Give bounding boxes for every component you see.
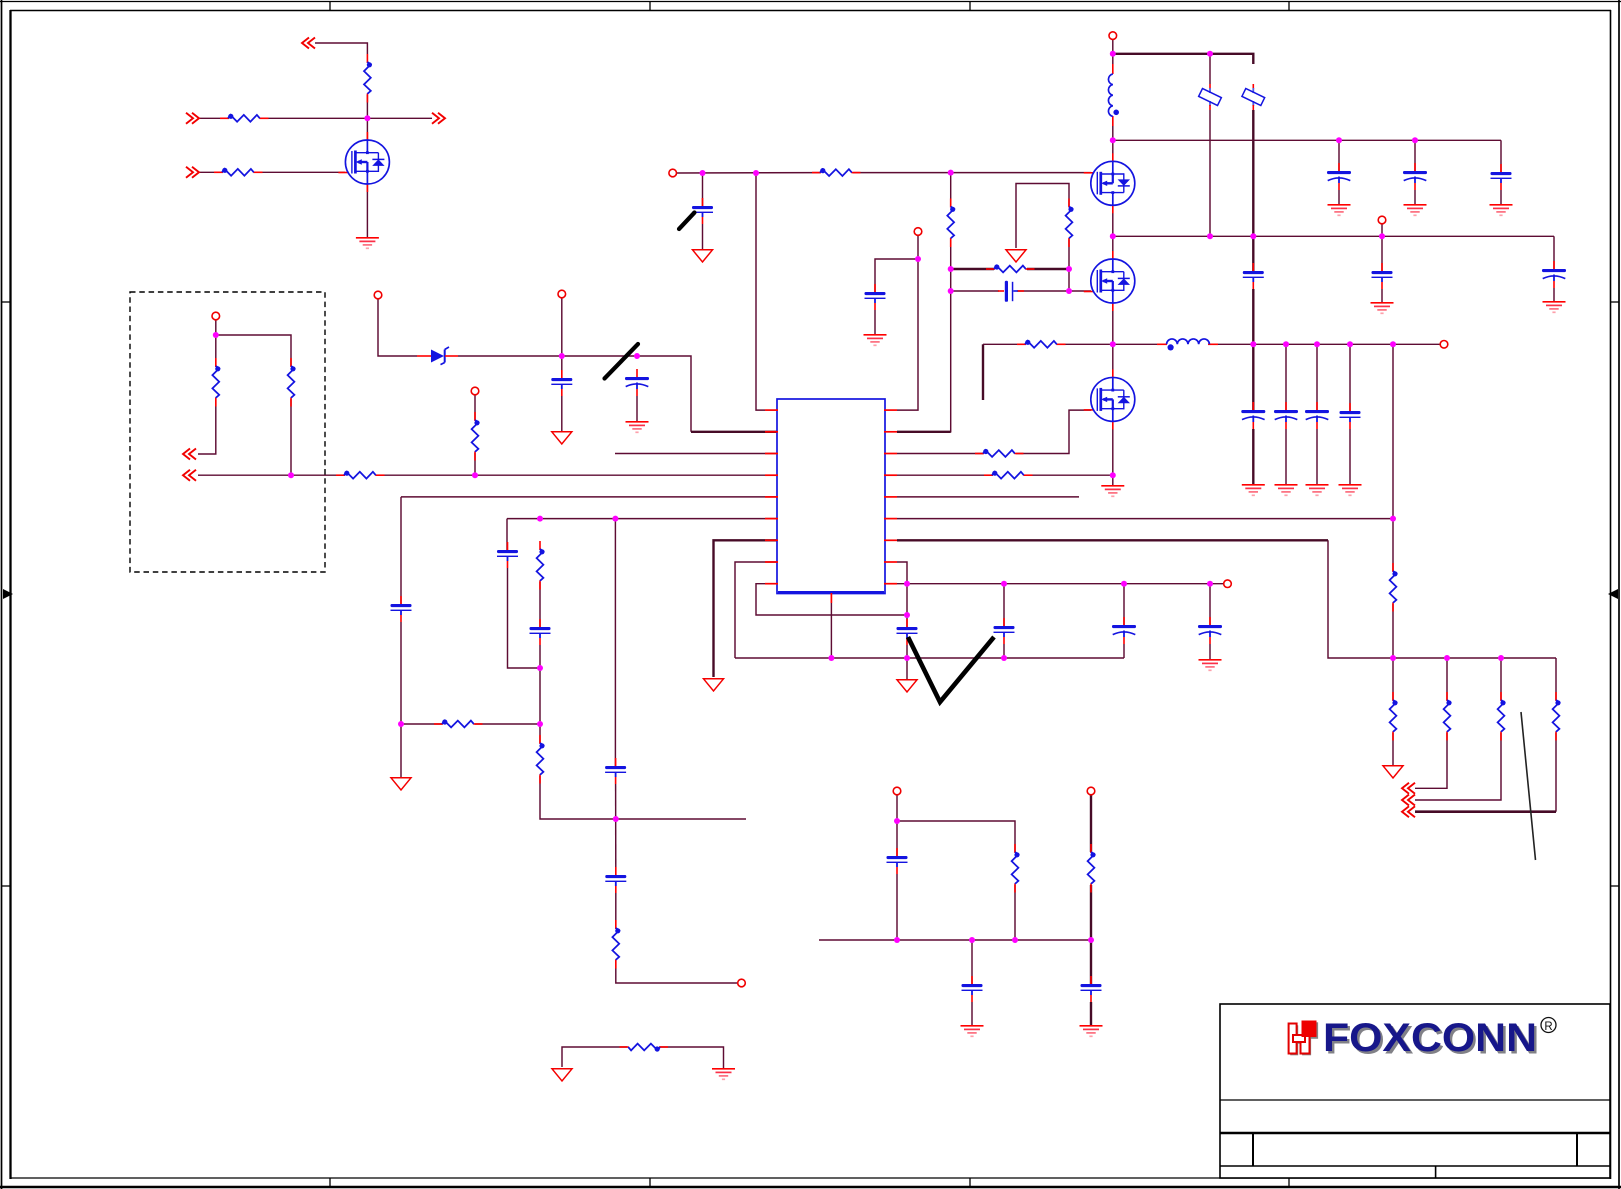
capacitor C_r4 (polarized) [1198,617,1222,644]
ground (earth) under C_o2 [1275,485,1298,496]
wire [971,1002,973,1025]
check-mark annotation [908,637,994,702]
svg-text:FOXCONN: FOXCONN [1323,1016,1537,1060]
junction [1390,516,1396,522]
thick wire [1027,268,1069,270]
fuse F1 [1199,84,1222,110]
wire [199,171,222,173]
off-page connector arrow (left input 1) [186,113,199,124]
junction [1412,137,1418,143]
wire [215,320,217,366]
pin (VCC rail) [558,290,566,298]
capacitor C_b3 (polarized) [1542,261,1566,288]
wire (rail ADJ) [819,939,1091,941]
wire [474,395,476,420]
ground (earth) under C_a3 [1490,205,1513,216]
capacitor C_r3 (polarized) [1112,617,1136,644]
junction [948,288,954,294]
wire [1392,733,1394,765]
wire [561,396,563,431]
wire [660,1047,724,1068]
wire (rail SW) [1113,343,1166,345]
ground (earth) under C_o1 [1242,485,1265,496]
wire [506,519,508,550]
thick wire [1252,344,1254,410]
resistor R_m2 [1088,844,1096,893]
wire [198,399,216,454]
resistor R_ss [434,719,483,727]
pin (12V sense) [1087,787,1095,795]
wire [1003,584,1005,626]
wire [1446,658,1448,700]
ground (earth) under C_m3 [1080,1026,1103,1037]
transistor Q3 (low-side N-MOSFET) [1084,369,1135,429]
wire (rail VOUT) [1209,343,1440,345]
pin (drive in) [669,169,677,177]
wire [950,240,952,270]
wire [906,645,908,679]
junction [1207,581,1213,587]
transistor Q2 (N-MOSFET) [1084,251,1135,311]
pin (test point) [471,387,479,395]
wire [198,474,344,476]
wire [1415,733,1447,788]
thick wire to U1 pin [691,431,777,433]
wire [458,355,562,357]
thick wire [1252,289,1254,344]
wire [1123,584,1125,625]
wire [290,399,292,475]
junction [948,170,954,176]
junction [948,266,954,272]
wire (stub net) [616,818,746,820]
resistor R_in1 [220,114,269,122]
ground (triangle) left of R_iso [552,1069,572,1081]
ground (earth) under C_b2 [1371,303,1394,314]
capacitor C_o2 (polarized) [1274,402,1298,429]
resistor R_sw [1017,340,1066,348]
wire [1555,658,1557,700]
wire [1209,584,1211,625]
off-page connector arrow (left input 2) [186,167,199,178]
wire (U1 to Q3 source) [897,474,992,476]
junction [613,816,619,822]
wire [1414,190,1416,204]
wire [875,259,918,292]
capacitor C_a3 [1491,164,1512,190]
wire (rail 5VIN) [1113,139,1501,141]
capacitor C_soft [391,596,412,622]
resistor R_cs [984,471,1033,479]
wire [735,562,777,658]
wire (rail 3V) [1113,235,1554,237]
junction [1379,233,1385,239]
wire [1381,289,1383,302]
capacitor C_comp1 [497,542,518,568]
junction [288,472,294,478]
wire [1123,644,1125,658]
junction [904,581,910,587]
wire [1016,410,1091,453]
wire [540,776,616,819]
junction [1250,233,1256,239]
resistor R_g1 [812,168,861,176]
resistor R_f4 [1498,692,1506,741]
off-page connector arrow (top-left net) [302,38,315,49]
wire [1381,236,1383,271]
thick wire (stub) [982,344,984,400]
wire [1112,205,1114,260]
pin (VCC in) [374,291,382,299]
wire [951,290,999,292]
resistor R_div2 [288,358,296,407]
wire [853,172,1091,174]
thick wire (U1 drive out) [897,431,951,433]
resistor R_g2 [947,199,955,248]
ground (earth) under C_a2 [1404,205,1427,216]
wire [1328,540,1556,658]
wire [702,173,704,206]
thick wire [1252,429,1254,484]
Foxconn logo text [1323,1016,1539,1062]
dashed option box [130,292,325,572]
capacitor C_comp2 [530,619,551,645]
junction [1001,581,1007,587]
wire (U1 bottom pin) [830,603,832,658]
wire [1392,604,1394,658]
wire [1553,236,1555,269]
fuse F2 [1242,84,1265,110]
junction [1498,655,1504,661]
wire [1209,644,1211,659]
wire [1316,344,1318,410]
wire [539,645,541,668]
capacitor C_o1 (polarized) [1241,402,1265,429]
wire [765,269,951,432]
junction [472,472,478,478]
ground (triangle) gate loop [1006,250,1026,262]
ground (earth) under Q_A [356,238,379,249]
wire [400,622,402,777]
title block [1220,1004,1610,1178]
junction [828,655,834,661]
wire [1112,303,1114,378]
capacitor C_a2 (polarized) [1403,163,1427,190]
resistor R_fb [336,471,385,479]
junction [364,115,370,121]
transistor Q1 (high-side N-MOSFET) [1084,153,1135,213]
wire [1381,224,1383,236]
transistor Q_A (N-MOSFET) [338,132,389,192]
off-page connector arrow (sense B) [183,470,196,481]
wire [1068,240,1070,270]
capacitor C_g1 [692,198,713,224]
off-page connector arrow (right output) [432,113,445,124]
wire [971,940,973,984]
thick wire [1252,236,1254,271]
wire [1112,421,1114,485]
capacitor C_t3 [605,867,626,893]
capacitor C_b1 [1243,263,1264,289]
junction [894,818,900,824]
wire [1316,429,1318,484]
capacitor C_r1 [897,619,918,645]
junction [1012,937,1018,943]
wire [1392,658,1394,700]
no-stuff slash mark 2 [679,213,695,230]
capacitor C_o4 [1340,403,1361,429]
resistor R_f2 [1390,692,1398,741]
junction [213,332,219,338]
wire [906,584,908,627]
wire [897,236,918,411]
resistor R_t2 [612,920,620,969]
ground (earth) under C_a1 [1328,205,1351,216]
ground (earth) under C_vcc2 [626,422,649,433]
wire [507,518,777,520]
ground (triangle) under C_r1 [897,680,917,692]
wire [702,224,704,249]
pin (aux VCC) [914,228,922,236]
wire [1392,344,1394,571]
wire [896,874,898,940]
zener diode D1 [417,347,458,365]
resistor R_top (pull-up) [364,54,372,103]
Foxconn logo H mark [1289,1021,1319,1056]
capacitor C_vcc2 (polarized) [625,369,649,396]
wire [1058,343,1113,345]
wire [1025,474,1113,476]
PWM controller U1 [765,399,897,603]
wire [1014,885,1016,940]
capacitor C_g2 (series) [998,281,1024,302]
wire [1555,733,1557,812]
wire [1285,429,1287,484]
junction [1347,341,1353,347]
pin (VOUT) [1440,341,1448,349]
wire [366,184,368,237]
wire [1285,344,1287,410]
wire (rail AGND) [735,657,1124,659]
pin (3V tap) [1378,216,1386,224]
resistor R_g4 [1066,199,1074,248]
junction [753,170,759,176]
wire [1209,54,1211,84]
no-stuff slash mark [605,344,639,379]
junction [1001,655,1007,661]
wire [474,453,476,475]
wire [508,568,541,668]
wire [562,1047,627,1067]
junction [969,937,975,943]
wire [216,335,291,366]
junction [894,937,900,943]
junction [1207,51,1213,57]
wire [616,961,737,983]
junction [1283,341,1289,347]
junction [1207,233,1213,239]
resistor R_f5 [1553,692,1561,741]
capacitor C_aux [865,284,886,310]
capacitor C_m3 [1081,976,1102,1002]
junction [612,516,618,522]
wire [950,173,952,207]
wire (rail VREF) [897,583,1228,585]
pin (VIN) [1109,32,1117,40]
wire [1349,429,1351,484]
junction [1444,655,1450,661]
thick wire [1252,110,1254,236]
wire (U1 sense stub) [615,453,777,455]
resistor R_comp [537,541,545,590]
wire [1338,140,1340,171]
wire [1415,733,1501,800]
junction [1066,288,1072,294]
wire [255,171,345,173]
pin (connector P_A) [212,312,220,320]
thick wire [951,268,994,270]
wire [199,117,228,119]
wire [400,497,402,604]
capacitor C_vcc1 [551,370,572,396]
junction [1110,233,1116,239]
wire [874,310,876,334]
off-page connector arrow (sel 1) [1402,783,1415,794]
wire [1414,140,1416,171]
wire [1500,140,1502,172]
off-page connector arrow (sel 2) [1402,795,1415,806]
resistor R_f1 [1390,563,1398,612]
junction [915,256,921,262]
junction [537,665,543,671]
junction [1110,51,1116,57]
ground (triangle) of U1 gnd [704,679,724,691]
wire [1500,658,1502,700]
wire [1017,290,1091,292]
wire [1112,119,1114,161]
junction [904,655,910,661]
border center arrow left [3,589,13,599]
ground (earth) under C_r4 [1199,660,1222,671]
wire [475,723,540,725]
resistor R_in2 (gate) [214,168,263,176]
wire (FB rail) [897,518,1393,520]
wire [1003,644,1005,658]
junction [1110,341,1116,347]
wire [561,298,563,378]
ground (earth) under C_aux [864,335,887,346]
capacitor C_m1 [887,848,908,874]
ground (triangle) bottom-left [391,778,411,790]
wire [897,821,1015,852]
wire [1068,269,1070,291]
resistor R_g5 [975,449,1024,457]
wire [377,474,777,476]
resistor R_m1 [1012,844,1020,893]
wire [1209,110,1211,236]
junction [1121,581,1127,587]
junction [1314,341,1320,347]
resistor R_f3 [1444,692,1452,741]
junction [1250,341,1256,347]
svg-text:R: R [1544,1021,1552,1033]
thick wire (U1 gnd pin) [714,540,778,677]
junction [537,721,543,727]
off-page connector arrow (sel 3) [1402,806,1415,817]
inductor L1 (filter) [1108,64,1119,126]
thick wire [1090,1002,1092,1025]
capacitor C_t2 [605,758,626,784]
border center arrow right [1608,589,1618,599]
wire [1016,184,1069,249]
junction [537,516,543,522]
wire [983,343,1025,345]
wire [615,784,617,875]
resistor R_g3 [986,264,1035,272]
junction [1088,937,1094,943]
resistor R_div1 [212,358,220,407]
ground (earth) under C_b3 [1543,302,1566,313]
wire [615,893,617,928]
junction [1390,341,1396,347]
ground (triangle) under C_g1 [693,250,713,262]
wire [261,117,432,119]
pin (12V in) [893,787,901,795]
ground (earth) under C_o3 [1306,485,1329,496]
wire (gate net Q1) [677,172,821,174]
wire [756,173,765,410]
ground (earth) under C_o4 [1339,485,1362,496]
wire (U1 stub) [897,496,1079,498]
wire [539,668,541,724]
wire [1500,190,1502,204]
wire [896,795,898,856]
resistor R_pu2 [472,412,480,461]
ground (earth) under Q3 [1101,486,1124,497]
pin (CT out) [738,979,746,987]
strike-through annotation [1521,712,1536,860]
ground (triangle) under C_vcc1 [552,432,572,444]
wire [401,496,777,498]
capacitor C_b2 [1372,263,1393,289]
wire [378,299,417,356]
ground (earth) right of R_iso [712,1069,735,1080]
junction [904,612,910,618]
wire [315,43,367,54]
wire [539,724,541,743]
inductor L2 (output) [1157,339,1218,351]
capacitor C_m2 [962,976,983,1002]
registered trademark symbol [1541,1018,1556,1033]
junction [559,353,565,359]
off-page connector arrow (sense A) [183,449,196,460]
wire [366,95,368,140]
junction [1390,655,1396,661]
pin (VREF out) [1224,580,1232,588]
wire [1553,288,1555,301]
capacitor C_o3 (polarized) [1305,402,1329,429]
thick wire [1090,885,1092,984]
thick wire [1415,810,1556,813]
junction [1110,472,1116,478]
junction [634,353,640,359]
junction [398,721,404,727]
wire [539,582,541,627]
thick wire [1090,795,1092,852]
wire [562,355,637,357]
ground (triangle) under R_f2 [1383,766,1403,778]
thick wire (U1 out2) [897,539,1328,541]
